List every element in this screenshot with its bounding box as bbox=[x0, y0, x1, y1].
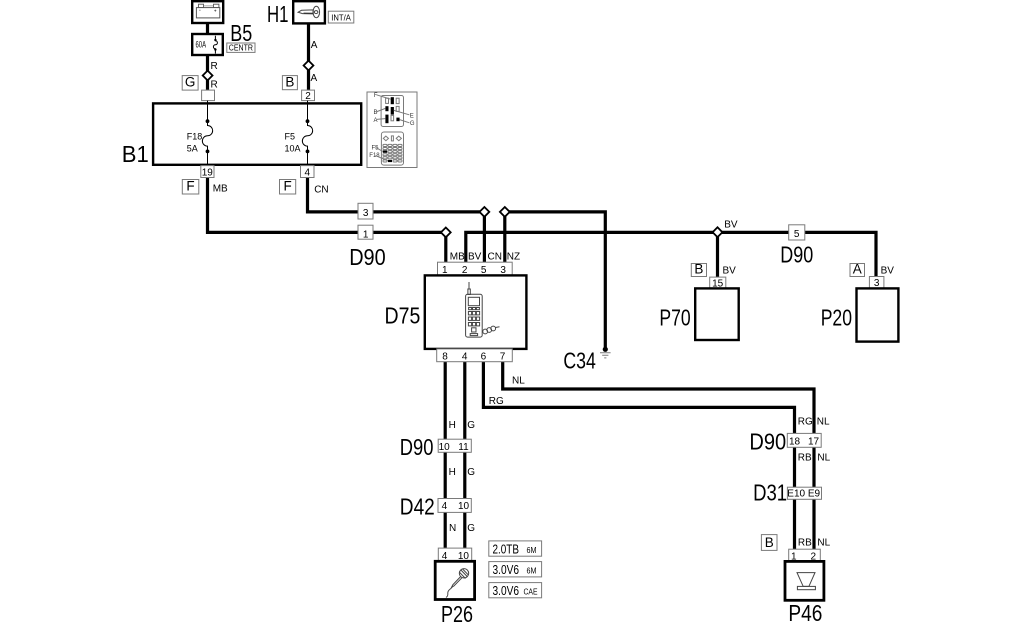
label INT/A bbox=[328, 11, 354, 23]
wire labels MB BV CN NZ above D75 bbox=[450, 252, 465, 263]
label D90 right connector bbox=[749, 429, 786, 455]
svg-text:E9: E9 bbox=[808, 489, 821, 500]
wire battery to fuse B5 bbox=[206, 22, 209, 35]
label D75 bbox=[385, 302, 421, 328]
wire CN: B1 pin 4 to D75 pin 5 bbox=[308, 176, 485, 263]
wire BV: D75 pin 2 to P70 / P20 bbox=[466, 232, 876, 277]
label P20 bbox=[821, 305, 852, 331]
D75 bottom pin strip 8 4 6 7 bbox=[437, 349, 513, 363]
wire label CN above D75 bbox=[488, 252, 502, 263]
svg-text:N: N bbox=[449, 523, 456, 534]
svg-text:CAE: CAE bbox=[524, 587, 538, 597]
label P26 bbox=[441, 601, 473, 627]
microphone icon in P26 bbox=[446, 569, 469, 598]
wire label BV at diamond bbox=[724, 220, 738, 231]
wire label G above P26 bbox=[467, 523, 475, 534]
svg-text:B: B bbox=[374, 110, 378, 116]
label D90 under connector 1 bbox=[349, 244, 386, 270]
svg-text:2.0TB: 2.0TB bbox=[493, 541, 520, 556]
svg-text:60A: 60A bbox=[196, 39, 207, 49]
wire label BV at P20 bbox=[881, 266, 895, 277]
label P46 bbox=[788, 600, 822, 626]
svg-text:D90: D90 bbox=[400, 434, 434, 460]
wire R: fuse B5 to B1 pin G bbox=[206, 54, 209, 91]
svg-text:P20: P20 bbox=[821, 305, 852, 331]
svg-text:A: A bbox=[374, 118, 378, 124]
svg-text:5A: 5A bbox=[187, 144, 198, 154]
svg-text:G: G bbox=[410, 121, 415, 127]
label G boxed bbox=[182, 75, 198, 91]
svg-text:B: B bbox=[285, 74, 294, 89]
svg-text:B5: B5 bbox=[230, 20, 252, 46]
svg-text:4: 4 bbox=[462, 352, 468, 363]
svg-text:D31: D31 bbox=[753, 480, 787, 506]
B1 pin 19 bbox=[201, 166, 214, 179]
svg-text:F18: F18 bbox=[369, 153, 380, 159]
svg-text:NL: NL bbox=[817, 417, 830, 428]
label P70 bbox=[659, 305, 690, 331]
wire labels H G above left D90 connector bbox=[449, 420, 456, 431]
node diamond on A wire bbox=[304, 61, 314, 71]
wire NL: D75 pin 7 to P46 pin 2 bbox=[503, 361, 814, 550]
wire label BV above D75 bbox=[468, 252, 482, 263]
B1 box bbox=[153, 103, 361, 164]
svg-text:RG: RG bbox=[489, 396, 504, 407]
battery icon box bbox=[192, 1, 223, 23]
label D90 left connector bbox=[400, 434, 434, 460]
svg-text:CN: CN bbox=[314, 185, 328, 196]
label D42 bbox=[400, 494, 435, 520]
svg-text:G: G bbox=[467, 420, 475, 431]
svg-text:3.0V6: 3.0V6 bbox=[493, 583, 520, 598]
node diamond MB bbox=[441, 228, 451, 238]
svg-text:10: 10 bbox=[439, 442, 451, 453]
svg-text:D42: D42 bbox=[400, 494, 435, 520]
svg-text:G: G bbox=[467, 467, 475, 478]
svg-text:B: B bbox=[694, 262, 703, 277]
svg-text:H: H bbox=[449, 467, 456, 478]
label B1 bbox=[122, 141, 149, 167]
inline connector 1 bbox=[358, 225, 373, 240]
svg-text:8: 8 bbox=[442, 352, 448, 363]
P46 box bbox=[785, 561, 824, 600]
fuse F18 5A inside B1 bbox=[187, 101, 213, 166]
svg-text:5: 5 bbox=[794, 229, 800, 240]
node diamond CN bbox=[480, 207, 490, 217]
wire label CN bbox=[314, 185, 328, 196]
svg-text:1: 1 bbox=[363, 229, 369, 240]
wire label NZ above D75 bbox=[507, 252, 520, 263]
svg-text:P70: P70 bbox=[659, 305, 690, 331]
wire H: D75 pin 8 down to P26 bbox=[444, 361, 447, 549]
wire label G above left D90 connector bbox=[467, 420, 475, 431]
inline connector 3 bbox=[358, 203, 373, 219]
svg-text:B1: B1 bbox=[122, 141, 149, 167]
wire label R lower bbox=[211, 80, 218, 91]
legend box 3.0V6 CAE bbox=[489, 583, 542, 598]
P26 pin strip (4 10) bbox=[438, 548, 471, 562]
P20 pin 3 bbox=[869, 277, 884, 290]
P70 box bbox=[695, 288, 739, 340]
svg-text:D75: D75 bbox=[385, 302, 421, 328]
svg-text:4: 4 bbox=[305, 167, 311, 178]
P26 box bbox=[435, 561, 474, 599]
label F boxed left bbox=[182, 179, 199, 194]
D75 box bbox=[425, 275, 527, 349]
svg-text:A: A bbox=[311, 73, 318, 84]
node diamond NZ bbox=[500, 207, 510, 217]
label C34 bbox=[563, 348, 596, 374]
wire label A lower bbox=[311, 73, 318, 84]
svg-text:6M: 6M bbox=[527, 545, 537, 555]
svg-text:19: 19 bbox=[202, 167, 214, 178]
P20: A boxed label bbox=[850, 262, 865, 277]
svg-text:A: A bbox=[311, 40, 318, 51]
wire G: D75 pin 4 down to P26 bbox=[463, 361, 466, 549]
wire label R upper bbox=[211, 61, 218, 72]
node diamond BV bbox=[713, 227, 723, 237]
B1 pin 4 bbox=[301, 166, 315, 179]
wire A: H1 to B1 pin 2 bbox=[307, 22, 310, 91]
label CENTR bbox=[227, 43, 255, 53]
svg-text:A: A bbox=[853, 262, 862, 277]
svg-text:NL: NL bbox=[817, 538, 830, 549]
wire label H below D90 bbox=[449, 467, 456, 478]
svg-text:CENTR: CENTR bbox=[229, 44, 253, 53]
svg-text:6: 6 bbox=[481, 352, 487, 363]
svg-text:E: E bbox=[410, 113, 414, 119]
svg-text:C34: C34 bbox=[563, 348, 596, 374]
svg-text:NL: NL bbox=[512, 375, 525, 386]
svg-text:BV: BV bbox=[723, 266, 737, 277]
svg-text:BV: BV bbox=[881, 266, 895, 277]
connector D31 (E10 E9) bbox=[787, 487, 821, 499]
svg-text:P26: P26 bbox=[441, 601, 473, 627]
svg-text:17: 17 bbox=[808, 437, 820, 448]
svg-text:RB: RB bbox=[798, 453, 812, 464]
label D90 under connector 5 bbox=[780, 242, 813, 268]
wire BV drop to P70 pin 15 bbox=[716, 232, 719, 278]
wire label BV at P70 bbox=[723, 266, 737, 277]
label B boxed bbox=[282, 74, 297, 89]
P70: B boxed label bbox=[691, 262, 706, 277]
wire RG / RB: D75 pin 6 to P46 pin 1 bbox=[483, 361, 794, 550]
B1 pin 2 bbox=[302, 90, 315, 102]
H1 key box bbox=[293, 1, 325, 23]
svg-text:4: 4 bbox=[442, 501, 448, 512]
horn icon in P46 bbox=[797, 573, 815, 590]
wire label MB bbox=[213, 183, 228, 194]
svg-text:F: F bbox=[186, 179, 194, 194]
svg-text:NZ: NZ bbox=[507, 252, 520, 263]
connector D42 (4 10) bbox=[438, 499, 471, 513]
fuse F5 10A inside B1 bbox=[285, 101, 313, 166]
svg-text:F5: F5 bbox=[285, 131, 296, 141]
svg-text:G: G bbox=[467, 523, 475, 534]
svg-text:6M: 6M bbox=[527, 566, 537, 576]
wire label G below D90 bbox=[467, 467, 475, 478]
svg-text:3: 3 bbox=[363, 208, 369, 219]
P70 pin 15 bbox=[710, 277, 726, 289]
svg-text:E10: E10 bbox=[787, 489, 805, 500]
D75 top pin strip 1 2 5 3 bbox=[438, 262, 513, 276]
svg-text:RB: RB bbox=[798, 538, 812, 549]
H1 label bbox=[267, 1, 289, 27]
wire label RB below D90 bbox=[798, 453, 812, 464]
svg-text:R: R bbox=[211, 80, 218, 91]
svg-text:18: 18 bbox=[789, 437, 801, 448]
svg-text:INT/A: INT/A bbox=[331, 13, 351, 22]
label F boxed right bbox=[280, 179, 296, 194]
svg-text:P46: P46 bbox=[788, 600, 822, 626]
svg-text:3.0V6: 3.0V6 bbox=[493, 562, 520, 577]
wire label RB above P46 bbox=[798, 538, 812, 549]
wire MB: B1 pin 19 to D75 pin 1 bbox=[208, 176, 446, 263]
svg-text:H: H bbox=[449, 420, 456, 431]
label B boxed at P46 bbox=[761, 535, 777, 551]
inline connector 5 bbox=[789, 225, 805, 240]
wire NZ: node to D75 pin 3 and ground C34 bbox=[505, 212, 606, 349]
svg-text:7: 7 bbox=[500, 352, 506, 363]
svg-text:NL: NL bbox=[817, 453, 830, 464]
svg-text:2: 2 bbox=[305, 91, 311, 102]
ground C34 bbox=[600, 347, 611, 358]
wire label A upper bbox=[311, 40, 318, 51]
wire label N bbox=[449, 523, 456, 534]
svg-text:10: 10 bbox=[458, 501, 470, 512]
wire label NL below D90 bbox=[817, 453, 830, 464]
inset connector/fusebox detail bbox=[367, 92, 417, 168]
legend box 2.0TB 6M bbox=[489, 541, 542, 556]
P20 box bbox=[857, 288, 899, 341]
P46 pin strip (1 2) bbox=[789, 549, 821, 562]
svg-text:D90: D90 bbox=[780, 242, 813, 268]
svg-text:F: F bbox=[374, 93, 378, 99]
connector D90 left (10 11) bbox=[438, 439, 471, 453]
svg-text:D90: D90 bbox=[749, 429, 786, 455]
svg-text:RG: RG bbox=[798, 417, 813, 428]
svg-text:D90: D90 bbox=[349, 244, 386, 270]
svg-text:B: B bbox=[765, 535, 774, 550]
phone icon in D75 bbox=[466, 282, 500, 337]
svg-text:10A: 10A bbox=[285, 144, 301, 154]
wire label RG bbox=[489, 396, 504, 407]
svg-text:BV: BV bbox=[468, 252, 482, 263]
label D31 bbox=[753, 480, 787, 506]
wire label NL above right D90 connector bbox=[817, 417, 830, 428]
node diamond on R wire bbox=[203, 71, 213, 81]
svg-text:R: R bbox=[211, 61, 218, 72]
svg-text:F: F bbox=[283, 179, 291, 194]
connector D90 right (18 17) bbox=[787, 433, 821, 447]
svg-text:11: 11 bbox=[458, 442, 469, 453]
label B5 bbox=[230, 20, 252, 46]
svg-text:G: G bbox=[185, 75, 196, 90]
svg-text:BV: BV bbox=[724, 220, 738, 231]
wire label NL bbox=[512, 375, 525, 386]
svg-text:H1: H1 bbox=[267, 1, 289, 27]
fuse box B5 60A bbox=[192, 34, 223, 55]
legend box 3.0V6 6M bbox=[489, 562, 542, 577]
B1 pin G (unnumbered) bbox=[202, 90, 215, 101]
wire labels RG NL above right D90 connector bbox=[798, 417, 813, 428]
wire label NL above P46 bbox=[817, 538, 830, 549]
svg-text:MB: MB bbox=[450, 252, 465, 263]
svg-text:MB: MB bbox=[213, 183, 228, 194]
svg-text:F18: F18 bbox=[187, 131, 203, 141]
svg-text:CN: CN bbox=[488, 252, 502, 263]
